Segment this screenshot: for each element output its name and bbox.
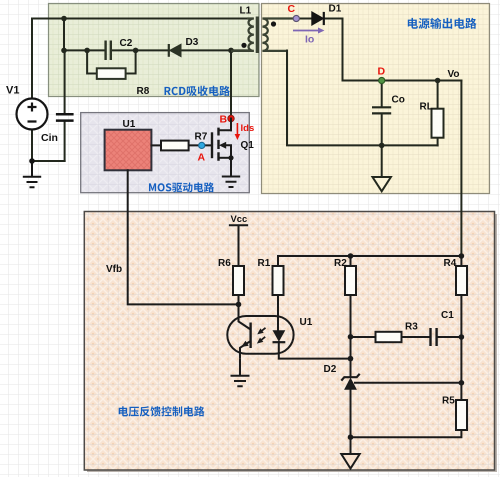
resistor R2 [345,266,356,295]
resistor R1 [273,266,284,295]
resistor R8 [97,68,126,79]
capacitor C2 [106,41,111,61]
svg-text:R6: R6 [218,258,231,269]
wire: R1 bottom to LED [277,295,279,330]
junction: ref node [459,380,465,386]
wire: Co bottom [381,114,383,146]
junction: Co bottom [379,143,385,149]
wire: R5 bottom rail [351,430,462,437]
wire: input vertical 64 [63,19,65,51]
svg-text:R7: R7 [195,132,208,143]
junction: R3 tee [348,334,354,340]
junction: snubber right [133,48,139,54]
wire: V1 top to transformer primary top [32,19,248,100]
resistor R3 [376,332,402,342]
transformer L1 [231,19,296,51]
junction: drain node [228,48,234,54]
wire: R4 top [460,256,462,266]
svg-text:Q1: Q1 [241,140,255,151]
transformer core [256,17,259,54]
region: RCD snubber (green) [49,4,260,97]
region: voltage feedback control (pink) [84,212,494,471]
svg-text:Vcc: Vcc [231,213,248,224]
resistor RL [432,109,444,138]
primary winding [231,19,254,51]
junction: C1/divider [459,334,465,340]
voltage source V1 [17,99,48,130]
svg-text:D: D [378,66,386,78]
wire: D2 ref [355,382,461,384]
wire: D3 to drain node [181,49,231,51]
wire: Q1 source to ground [230,158,232,177]
svg-text:R4: R4 [444,258,457,269]
ground: open triangle (output) [373,177,391,191]
junction: ground rail [348,434,354,440]
wire: R2 bottom to D2 [350,295,352,377]
svg-text:Vfb: Vfb [106,264,122,275]
primary polarity dot [241,43,246,48]
wire: secondary return rail [287,51,438,146]
ground: bar style under V1 [23,161,41,187]
junction: opto cathode node [348,356,354,362]
region: MOS drive (lavender) [81,113,250,193]
resistor R5 [456,400,467,430]
wire: R6 bottom to opto collector [238,295,240,317]
svg-text:L1: L1 [240,6,252,17]
resistor R7 [161,141,189,151]
wire: R2 top [350,256,352,266]
svg-text:R2: R2 [334,258,347,269]
region shadow: feedback [87,214,497,472]
resistor R4 [456,266,467,295]
capacitor Cin [56,114,74,120]
junction: V1 bottom node [29,158,35,164]
svg-text:V1: V1 [6,85,19,97]
svg-text:D3: D3 [186,37,199,48]
svg-text:Io: Io [305,34,314,46]
node D [379,77,385,83]
wire: R3 left link [351,336,376,338]
wire: Cin top [64,50,66,114]
title: 电源输出电路 [408,18,477,29]
wire: RL bottom [437,138,439,146]
wire: U1 out to R7 [151,144,161,146]
svg-text:Ids: Ids [241,123,255,134]
title: 电压反馈控制电路 [119,406,205,416]
svg-text:R1: R1 [258,258,271,269]
node C [293,15,299,21]
wire: C2 right to D3 [111,49,169,51]
ground: bar style under optocoupler [231,359,250,387]
wire: drain node to transformer primary bottom [231,49,248,51]
node B [228,115,234,121]
wire: output ground stem [381,145,383,176]
svg-text:R5: R5 [442,396,455,407]
wire: Vo down to feedback divider [460,81,462,257]
svg-text:U1: U1 [123,119,136,130]
light arrows [257,328,266,344]
title: RCD吸收电路 [165,86,230,96]
svg-text:C1: C1 [441,310,454,321]
phototransistor [249,323,251,349]
driver IC U1 [105,130,152,171]
svg-text:B: B [220,114,228,126]
wire: Co top [381,81,383,108]
wire: D2 anode down to ground [350,389,352,454]
junction: R6 bottom / Vfb [236,302,242,308]
wire: Cin bottom [64,121,66,161]
wire: top rail R1-R2-R4 [278,256,461,266]
svg-text:U1: U1 [300,317,313,328]
wire: RL top [437,81,439,109]
wire: R4 bottom to R5 top [460,295,462,400]
resistor R6 [233,266,244,295]
wire: R3 to C1 [402,336,431,338]
capacitor Co [372,107,391,113]
Io current arrow [293,28,325,34]
svg-text:D2: D2 [324,364,337,375]
node A [199,142,205,148]
svg-text:C: C [288,3,296,15]
wire: LED cathode to zener node [279,342,351,359]
secondary winding [262,19,296,51]
LED inside optocoupler [273,330,286,342]
optocoupler U1 [227,316,293,359]
diode D1 [312,12,324,25]
svg-text:A: A [198,152,206,164]
wire: secondary top to D1 anode [296,18,312,20]
wire: R8 lower branch [87,50,136,73]
wire: C2/R8 left link [64,49,105,51]
ground: bar style under Q1 [222,177,240,188]
svg-text:R3: R3 [405,322,418,333]
power symbol Vcc [230,225,247,266]
Ids current arrow [235,123,241,140]
region: power output (yellow) [262,4,490,194]
junction: RL top [435,78,441,84]
wire: drain node down to node B and Q1 drain [230,50,232,130]
svg-text:Cin: Cin [41,132,58,144]
junction: rail at R4/Vo [459,253,465,259]
svg-text:Co: Co [392,95,405,106]
junction: rail at R2 [348,253,354,259]
wire: Vo rail [343,80,462,82]
svg-text:RL: RL [420,102,433,113]
secondary polarity dot [271,21,276,26]
wire: C1 to divider [437,336,461,338]
ground: open triangle (feedback) [341,454,359,469]
title: MOS驱动电路 [149,182,214,192]
svg-text:C2: C2 [120,38,133,49]
wire: V1 bottom [32,130,65,162]
wire: D1 cathode to Vo corner [324,19,343,81]
svg-text:R8: R8 [137,86,150,97]
diode D3 [169,44,181,57]
junction: snubber left [84,48,90,54]
capacitor C1 [431,328,437,346]
wire: R7 to gate [189,144,212,146]
wire: U1 bottom to Vfb [128,170,239,304]
transistor Q1 (N-MOSFET) [212,129,219,160]
svg-text:Vo: Vo [448,69,460,80]
junction: C2 net left [61,48,67,54]
junction: top-left node [61,16,67,22]
svg-text:D1: D1 [329,4,342,15]
